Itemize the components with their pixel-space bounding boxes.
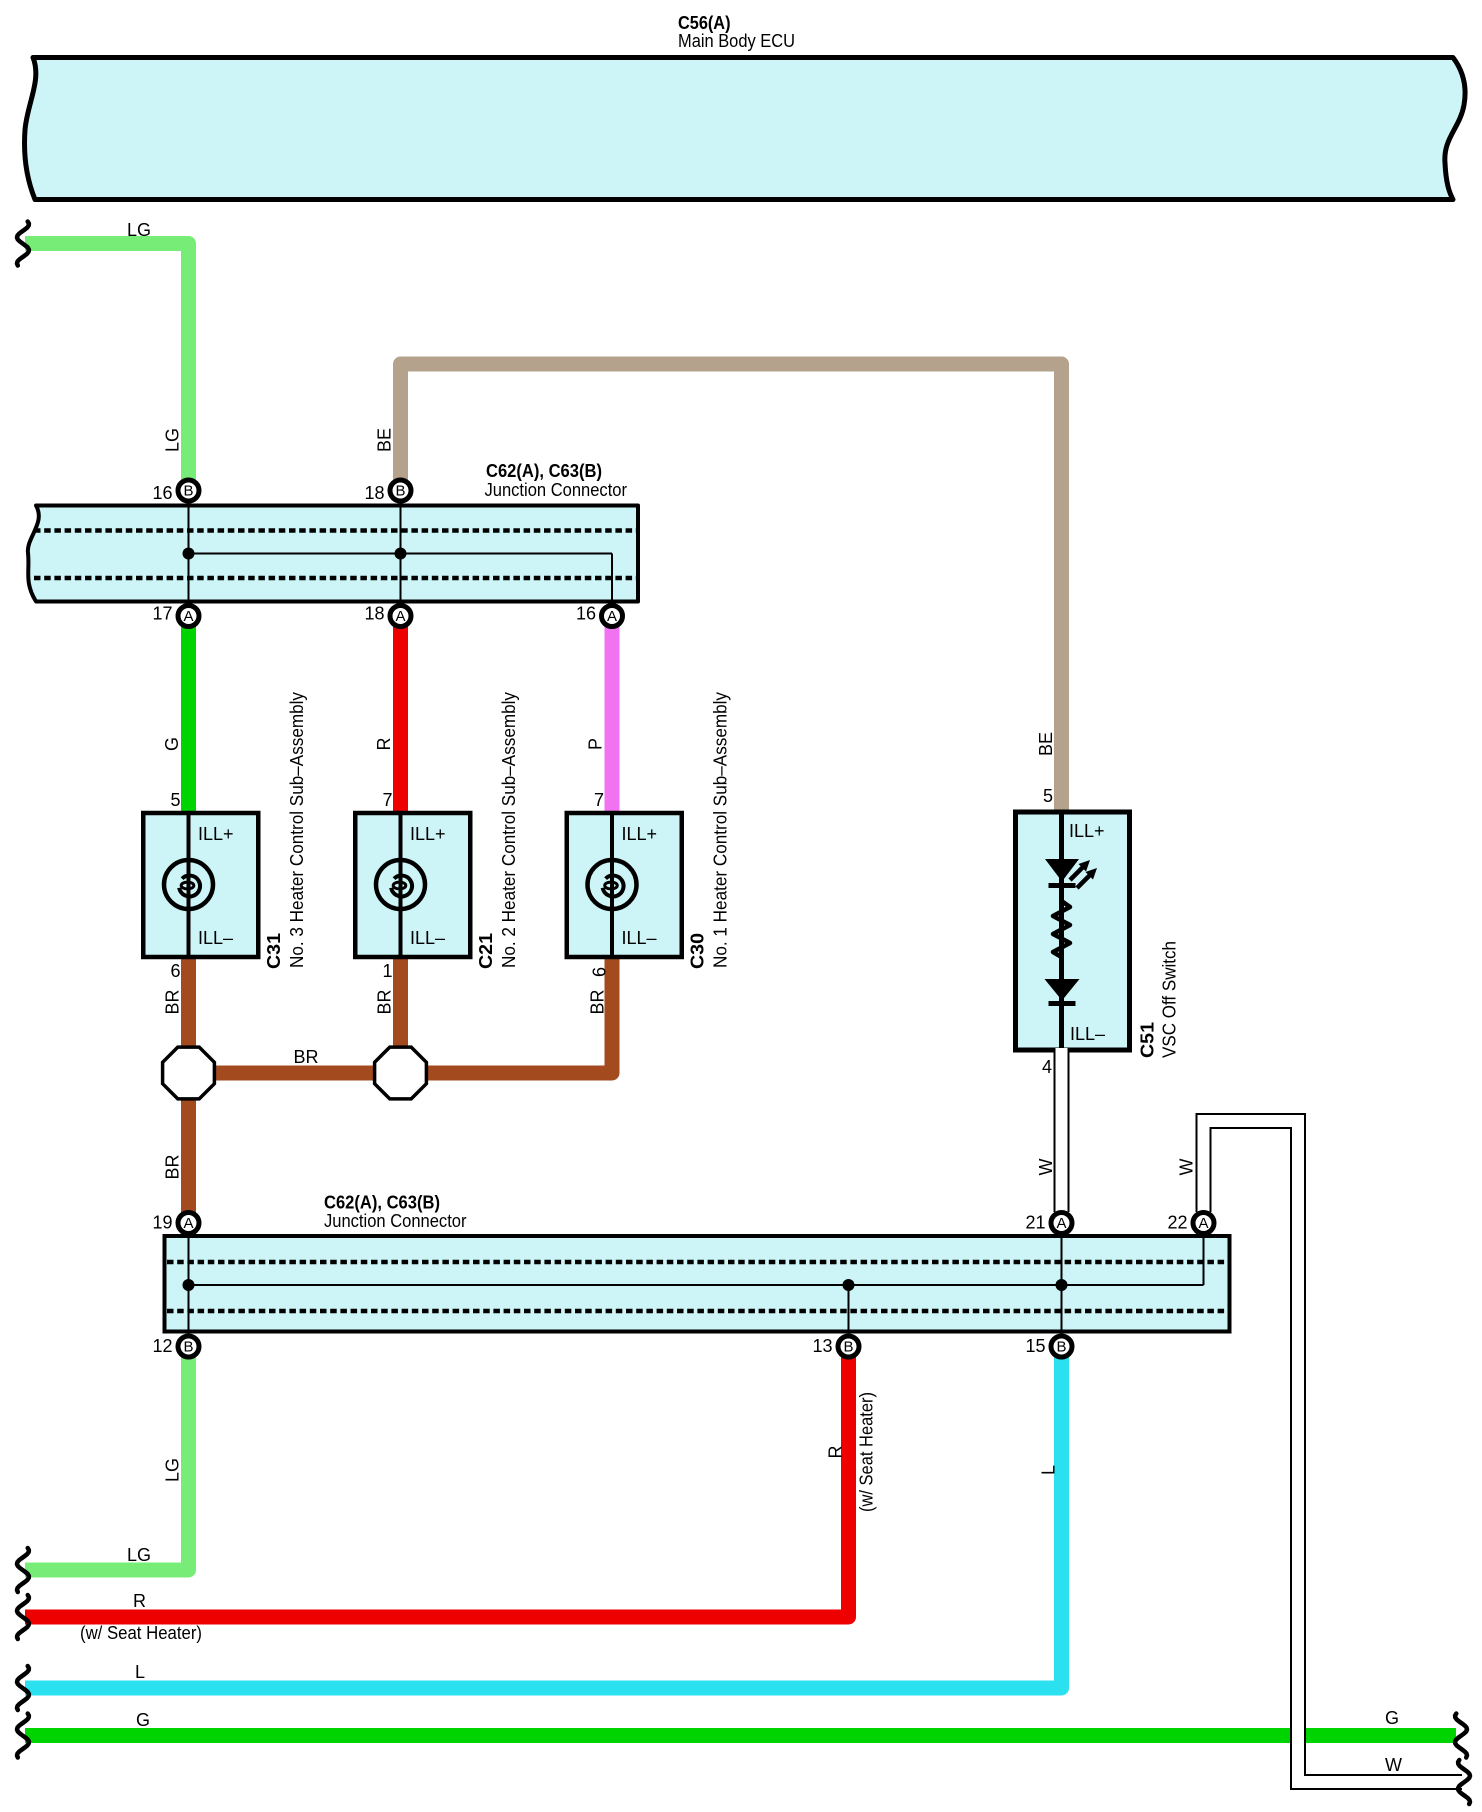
- svg-text:ILL+: ILL+: [622, 824, 658, 844]
- svg-text:W: W: [1036, 1159, 1056, 1176]
- svg-text:BR: BR: [375, 989, 395, 1014]
- svg-text:B: B: [183, 1339, 193, 1356]
- svg-text:BR: BR: [163, 1154, 183, 1179]
- svg-text:15: 15: [1025, 1336, 1045, 1356]
- svg-text:ILL–: ILL–: [1070, 1024, 1105, 1044]
- svg-text:P: P: [586, 738, 606, 750]
- svg-text:16: 16: [576, 604, 596, 624]
- svg-text:6: 6: [170, 961, 180, 981]
- svg-text:C62(A), C63(B): C62(A), C63(B): [324, 1193, 440, 1213]
- svg-text:B: B: [1056, 1339, 1066, 1356]
- svg-text:19: 19: [152, 1213, 172, 1233]
- svg-text:ILL+: ILL+: [410, 824, 446, 844]
- svg-text:7: 7: [382, 790, 392, 810]
- svg-text:C21: C21: [476, 933, 496, 969]
- svg-text:ILL–: ILL–: [410, 928, 445, 948]
- svg-text:22: 22: [1167, 1213, 1187, 1233]
- svg-text:No. 1 Heater Control Sub–Asse: No. 1 Heater Control Sub–Assembly: [711, 692, 731, 968]
- svg-text:A: A: [607, 608, 617, 625]
- svg-text:13: 13: [812, 1336, 832, 1356]
- svg-text:ILL–: ILL–: [622, 928, 657, 948]
- svg-text:B: B: [395, 483, 405, 500]
- svg-text:Junction Connector: Junction Connector: [324, 1211, 467, 1231]
- svg-text:5: 5: [1043, 786, 1053, 806]
- svg-text:ILL–: ILL–: [198, 928, 233, 948]
- svg-text:G: G: [136, 1710, 150, 1730]
- svg-text:L: L: [1039, 1465, 1059, 1475]
- svg-text:18: 18: [364, 483, 384, 503]
- svg-text:BR: BR: [293, 1047, 318, 1067]
- svg-text:G: G: [1385, 1708, 1399, 1728]
- svg-text:21: 21: [1025, 1213, 1045, 1233]
- svg-text:BE: BE: [375, 428, 395, 452]
- svg-text:G: G: [162, 737, 182, 751]
- svg-text:R: R: [374, 738, 394, 751]
- svg-text:A: A: [1056, 1215, 1066, 1232]
- svg-text:17: 17: [152, 604, 172, 624]
- svg-text:LG: LG: [127, 220, 151, 240]
- svg-text:C30: C30: [688, 933, 708, 969]
- svg-text:C62(A), C63(B): C62(A), C63(B): [486, 461, 602, 481]
- svg-text:7: 7: [594, 790, 604, 810]
- svg-text:Junction Connector: Junction Connector: [485, 480, 628, 500]
- svg-text:ILL+: ILL+: [1069, 821, 1105, 841]
- svg-text:No. 2 Heater Control Sub–Asse: No. 2 Heater Control Sub–Assembly: [499, 692, 519, 968]
- svg-text:6: 6: [590, 967, 610, 977]
- svg-text:LG: LG: [163, 1458, 183, 1482]
- svg-text:C56(A): C56(A): [678, 13, 731, 33]
- svg-text:B: B: [183, 483, 193, 500]
- svg-text:5: 5: [170, 790, 180, 810]
- svg-text:L: L: [135, 1662, 145, 1682]
- svg-text:VSC Off Switch: VSC Off Switch: [1160, 941, 1180, 1058]
- svg-text:C31: C31: [264, 933, 284, 969]
- svg-text:A: A: [395, 608, 405, 625]
- svg-text:12: 12: [152, 1336, 172, 1356]
- svg-text:BR: BR: [163, 989, 183, 1014]
- svg-text:No. 3 Heater Control Sub–Asse: No. 3 Heater Control Sub–Assembly: [287, 692, 307, 968]
- svg-text:16: 16: [152, 483, 172, 503]
- svg-text:C51: C51: [1138, 1022, 1158, 1058]
- svg-text:1: 1: [382, 961, 392, 981]
- svg-text:A: A: [183, 1215, 193, 1232]
- svg-text:R: R: [133, 1591, 146, 1611]
- svg-text:BR: BR: [588, 989, 608, 1014]
- svg-text:BE: BE: [1036, 732, 1056, 756]
- svg-text:A: A: [183, 608, 193, 625]
- svg-text:Main Body ECU: Main Body ECU: [678, 31, 795, 51]
- svg-text:B: B: [843, 1339, 853, 1356]
- svg-text:(w/ Seat Heater): (w/ Seat Heater): [857, 1392, 877, 1512]
- svg-text:A: A: [1198, 1215, 1208, 1232]
- svg-text:18: 18: [364, 604, 384, 624]
- svg-text:R: R: [826, 1446, 846, 1459]
- svg-text:W: W: [1177, 1159, 1197, 1176]
- svg-text:4: 4: [1042, 1057, 1052, 1077]
- svg-text:LG: LG: [163, 428, 183, 452]
- svg-text:LG: LG: [127, 1545, 151, 1565]
- svg-text:W: W: [1385, 1755, 1402, 1775]
- svg-text:ILL+: ILL+: [198, 824, 234, 844]
- svg-text:(w/ Seat Heater): (w/ Seat Heater): [80, 1623, 202, 1643]
